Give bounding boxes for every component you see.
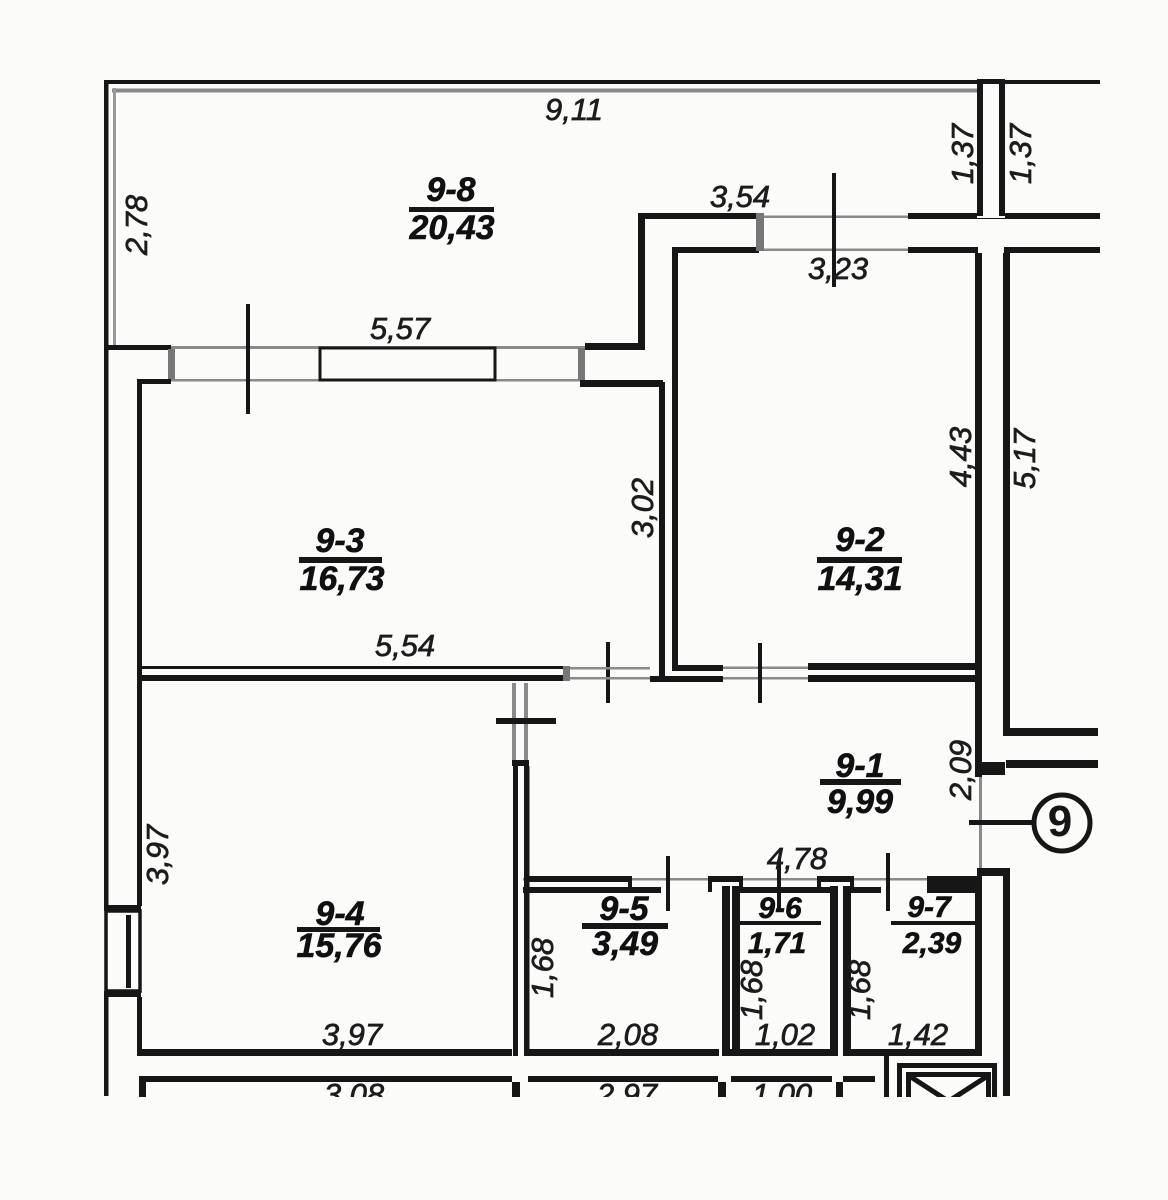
svg-text:1,68: 1,68: [525, 937, 560, 998]
svg-text:9-6: 9-6: [758, 892, 802, 925]
svg-text:3,02: 3,02: [625, 478, 660, 538]
svg-text:16,73: 16,73: [299, 560, 384, 598]
svg-text:3,49: 3,49: [592, 925, 658, 963]
svg-text:3,97: 3,97: [140, 823, 175, 885]
svg-text:9-7: 9-7: [907, 891, 952, 924]
svg-text:9-5: 9-5: [599, 890, 649, 928]
svg-text:9-2: 9-2: [835, 521, 884, 559]
svg-text:3,54: 3,54: [710, 179, 770, 214]
svg-text:20,43: 20,43: [408, 209, 494, 247]
svg-text:14,31: 14,31: [817, 560, 902, 598]
svg-text:3,97: 3,97: [322, 1017, 384, 1052]
svg-text:3,23: 3,23: [808, 251, 868, 286]
svg-text:1,42: 1,42: [888, 1017, 948, 1052]
svg-text:1,68: 1,68: [842, 959, 877, 1020]
svg-text:2,08: 2,08: [597, 1017, 659, 1052]
svg-text:5,17: 5,17: [1007, 427, 1042, 489]
svg-text:9,99: 9,99: [827, 783, 893, 821]
svg-text:2,09: 2,09: [943, 740, 978, 801]
svg-text:15,76: 15,76: [296, 927, 382, 965]
svg-text:1,37: 1,37: [1003, 122, 1038, 184]
svg-text:2,78: 2,78: [119, 194, 154, 256]
svg-text:9: 9: [1048, 797, 1072, 846]
svg-text:4,78: 4,78: [767, 841, 828, 876]
svg-text:9-3: 9-3: [315, 522, 364, 560]
svg-text:4,43: 4,43: [943, 427, 978, 487]
svg-text:5,57: 5,57: [370, 311, 432, 346]
svg-text:1,02: 1,02: [755, 1017, 815, 1052]
svg-text:2,39: 2,39: [902, 927, 962, 960]
svg-text:5,54: 5,54: [375, 628, 435, 663]
svg-text:1,71: 1,71: [748, 927, 806, 960]
svg-text:1,37: 1,37: [945, 122, 980, 184]
svg-text:9-8: 9-8: [426, 171, 475, 209]
svg-text:1,68: 1,68: [734, 959, 769, 1020]
svg-text:9,11: 9,11: [545, 92, 603, 127]
